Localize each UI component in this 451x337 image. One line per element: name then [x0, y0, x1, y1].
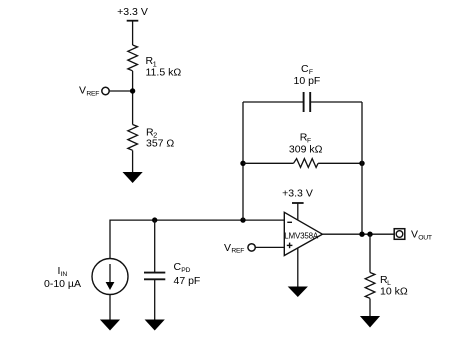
terminal VREF (op-amp) [248, 244, 255, 251]
wire feedback right vertical [361, 102, 363, 234]
label CF [301, 63, 313, 76]
ground (CPD) [145, 320, 165, 331]
svg-text:REF: REF [231, 248, 244, 255]
svg-text:0-10 µA: 0-10 µA [44, 278, 81, 290]
svg-text:C: C [174, 261, 182, 273]
label CPD [174, 261, 191, 274]
op-amp minus sign [287, 221, 292, 223]
svg-text:357 Ω: 357 Ω [146, 138, 174, 150]
label VREF (op-amp) [224, 242, 244, 255]
wire RL to ground [369, 299, 371, 317]
wire CPD to ground [154, 279, 156, 319]
wire VREF terminal to plus input [255, 246, 284, 248]
svg-text:10 kΩ: 10 kΩ [380, 286, 408, 298]
label VOUT [411, 229, 432, 242]
wire supply to R1 [132, 21, 134, 45]
wire CF branch left [243, 101, 304, 103]
ground (op-amp) [288, 287, 308, 298]
svg-text:309 kΩ: 309 kΩ [289, 144, 323, 156]
svg-text:C: C [301, 63, 309, 75]
terminal VOUT box [394, 229, 405, 240]
wire node to CPD [154, 220, 156, 272]
wire output to RL [369, 234, 371, 272]
wire R1 to R2 [132, 71, 134, 125]
label VREF (divider) [79, 85, 99, 98]
svg-text:V: V [79, 85, 86, 97]
svg-text:REF: REF [86, 90, 99, 97]
label IIN [58, 265, 68, 278]
wire RF branch left [243, 162, 294, 164]
terminal VREF (divider) [102, 87, 109, 94]
node CPD junction [152, 217, 157, 222]
wire R2 to ground [132, 151, 134, 173]
label R2 [146, 126, 157, 139]
resistor RL [365, 273, 375, 299]
node output feedback junction [359, 232, 364, 237]
node VREF junction [130, 88, 135, 93]
op-amp plus sign [287, 243, 293, 249]
wire input net horizontal [110, 220, 284, 258]
capacitor CPD [144, 273, 165, 280]
wire supply to op-amp [297, 203, 299, 220]
label RF [300, 131, 311, 144]
current source arrow [106, 264, 115, 290]
svg-text:+3.3 V: +3.3 V [282, 187, 313, 199]
svg-text:PD: PD [181, 267, 190, 274]
svg-text:V: V [224, 242, 231, 254]
terminal VOUT circle [396, 231, 403, 238]
ground (current source) [100, 320, 120, 331]
capacitor CF [304, 92, 311, 112]
ground (divider) [123, 172, 143, 183]
resistor RF [294, 159, 319, 168]
resistor R2 [128, 125, 138, 151]
ground (RL) [360, 316, 380, 328]
svg-text:11.5 kΩ: 11.5 kΩ [146, 67, 182, 79]
node RF right junction [359, 161, 364, 166]
resistor R1 [128, 45, 138, 71]
wire CF branch right [310, 101, 362, 103]
svg-text:V: V [411, 229, 418, 241]
wire RF branch right [318, 162, 362, 164]
label RL [380, 274, 391, 287]
node RF left junction [240, 161, 245, 166]
wire feedback left vertical [242, 102, 244, 220]
node output RL junction [367, 232, 372, 237]
wire VREF terminal to node [109, 90, 132, 92]
svg-text:OUT: OUT [418, 235, 432, 242]
wire current source to ground [109, 295, 111, 320]
current source IIN [92, 259, 128, 295]
wire op-amp to ground [297, 248, 299, 287]
supply bar (op-amp) [292, 202, 304, 204]
svg-text:10 pF: 10 pF [294, 75, 321, 87]
svg-text:LMV358A: LMV358A [284, 231, 319, 240]
label R1 [146, 55, 157, 68]
node feedback junction [240, 217, 245, 222]
wire op-amp output [322, 233, 394, 235]
op-amp U1 LMV358A [284, 212, 322, 255]
supply bar (divider) [127, 20, 139, 22]
svg-text:47 pF: 47 pF [174, 275, 201, 287]
svg-text:+3.3 V: +3.3 V [117, 6, 148, 18]
